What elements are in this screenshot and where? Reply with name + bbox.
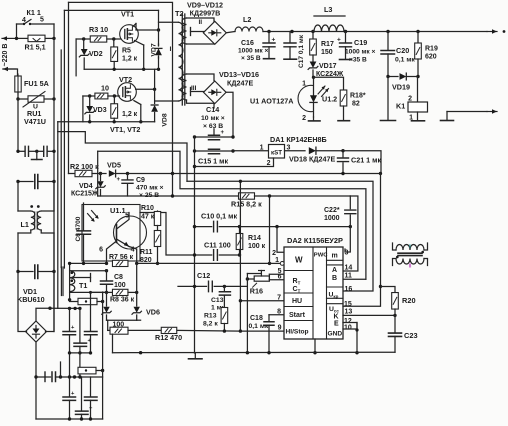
svg-text:1,2 к: 1,2 к bbox=[122, 111, 138, 118]
svg-text:R17: R17 bbox=[321, 41, 334, 48]
wire: VT2 cell left drop bbox=[82, 96, 84, 122]
svg-text:FU1 5A: FU1 5A bbox=[24, 79, 49, 88]
wire: right mains rail x=54 down bbox=[53, 38, 55, 331]
svg-text:R11: R11 bbox=[140, 249, 153, 256]
svg-text:V471U: V471U bbox=[24, 117, 46, 126]
wire: VT1/VT2 mid rail y=69.5 bbox=[84, 68, 160, 71]
resistor R7 56k bbox=[109, 254, 134, 267]
svg-text:DA1 КР142ЕН8Б: DA1 КР142ЕН8Б bbox=[270, 135, 327, 144]
wire: T1 top lead y=270.7 bbox=[70, 269, 109, 272]
svg-text:1: 1 bbox=[260, 145, 264, 152]
wire: x=240.4 vertical pin9/pin7 net bbox=[239, 180, 242, 333]
resistor R20 bbox=[392, 293, 416, 316]
ground: C20 bbox=[381, 120, 396, 122]
svg-text:HI/Stop: HI/Stop bbox=[286, 329, 309, 336]
wire: winding II top to bridge bbox=[187, 18, 215, 22]
switch K1.1 bbox=[17, 8, 55, 25]
capacitor C2: X-cap lower bbox=[16, 265, 55, 279]
resistor R19 620 bbox=[415, 32, 438, 77]
svg-text:1000 мк ×: 1000 мк × bbox=[238, 48, 269, 55]
svg-text:C16: C16 bbox=[241, 40, 254, 47]
relay coil K1 bbox=[396, 77, 428, 122]
wire: DA2 pin12 and pin10 to rail bbox=[343, 323, 359, 355]
capacitor C17 0,1uF bbox=[284, 32, 305, 69]
ground: C17 bbox=[284, 58, 297, 60]
svg-text:R20: R20 bbox=[402, 296, 416, 305]
wire: left rail from input2 down to fuse bbox=[3, 69, 18, 76]
svg-text:E: E bbox=[334, 320, 339, 327]
svg-text:1000 мк ×: 1000 мк × bbox=[345, 49, 376, 56]
svg-text:A: A bbox=[332, 267, 337, 274]
resistor R13 8,2k bbox=[203, 295, 228, 333]
wire: VD1 plus output up to node bbox=[36, 307, 52, 322]
wire: C20 down to ground bbox=[387, 77, 389, 121]
wire: row y=352.9 bbox=[68, 351, 92, 354]
node: AC input terminal 2 bbox=[3, 67, 16, 71]
varistor RU1 V471U bbox=[18, 92, 56, 127]
wire: bridge III output right to x=233 bbox=[226, 92, 233, 137]
wire: bus x=63.8 down to T1 bbox=[63, 10, 65, 268]
wire: R9 node down to rail bbox=[112, 334, 114, 353]
wire: fuse to varistor node bbox=[16, 92, 19, 101]
capacitor C23 bbox=[389, 315, 418, 352]
capacitor C5a bottom center bbox=[76, 377, 94, 419]
wire: spine x=194.5 down bbox=[193, 137, 196, 353]
wire: bridge III bottom down to C14 bbox=[213, 104, 215, 136]
svg-text:КД2997В: КД2997В bbox=[190, 9, 221, 18]
svg-text:47 к: 47 к bbox=[141, 214, 155, 221]
resistor R8 36k bbox=[107, 289, 139, 303]
svg-text:КД247Е: КД247Е bbox=[227, 79, 253, 88]
svg-text:R15 8,2 к: R15 8,2 к bbox=[231, 200, 262, 209]
wire: pin16 net y=181.3 bbox=[187, 181, 373, 291]
svg-text:C17 0,1 мк: C17 0,1 мк bbox=[298, 34, 305, 68]
pin number labels DA2 right bbox=[344, 250, 352, 332]
wire: VD1 minus output down to bottom rail bbox=[35, 342, 37, 419]
wire: DA2 pin15 Ucc from node x=380.5 bbox=[343, 174, 382, 307]
svg-text:I: I bbox=[170, 46, 172, 53]
capacitor C7 (box) bbox=[70, 298, 105, 304]
svg-text:0,1 мк: 0,1 мк bbox=[395, 57, 415, 64]
wire: T2 primary top lead bbox=[159, 21, 179, 23]
wire: verticals row353 to row377 bbox=[70, 353, 80, 377]
svg-text:6: 6 bbox=[99, 247, 103, 254]
capacitor C?: Y-cap left bbox=[16, 146, 38, 156]
capacitor C20 0,1uF bbox=[381, 32, 415, 77]
svg-text:+: + bbox=[221, 130, 225, 136]
svg-text:16: 16 bbox=[345, 286, 353, 293]
svg-text:C8: C8 bbox=[114, 274, 123, 281]
svg-text:L1: L1 bbox=[21, 220, 29, 229]
svg-text:C6 4700: C6 4700 bbox=[75, 216, 82, 241]
svg-text:× 35 В: × 35 В bbox=[241, 55, 261, 62]
wire: bottom rail y=419 bbox=[36, 371, 103, 421]
diode VD18 KD247E bbox=[289, 147, 343, 163]
svg-text:C22*: C22* bbox=[324, 207, 340, 214]
resistor R2 100k bbox=[70, 162, 102, 177]
svg-text:R1 5,1: R1 5,1 bbox=[25, 43, 46, 52]
wire: net y=226.6 from spine to corner x=350.3 bbox=[193, 225, 352, 228]
wire: bus x=57.8 down to + wire bbox=[57, 122, 59, 309]
svg-text:кST: кST bbox=[271, 150, 282, 157]
node: output arrow common bbox=[447, 109, 497, 113]
wire: VT2 source down bbox=[134, 101, 143, 124]
label U1 AOT127A bbox=[250, 97, 293, 106]
svg-text:× 63 В: × 63 В bbox=[203, 123, 223, 130]
svg-text:U1.1: U1.1 bbox=[110, 206, 126, 215]
svg-text:VD5: VD5 bbox=[107, 161, 121, 170]
svg-text:10: 10 bbox=[344, 325, 352, 332]
wire: pin11 net to chip bbox=[343, 278, 366, 280]
svg-text:6: 6 bbox=[278, 274, 282, 281]
resistor R10 47k bbox=[140, 205, 161, 226]
svg-text:C19: C19 bbox=[354, 38, 367, 47]
svg-text:II: II bbox=[199, 19, 203, 26]
svg-text:VD17: VD17 bbox=[319, 63, 337, 70]
IC DA1 KR142EN8B bbox=[260, 135, 327, 167]
wire: winding III bottom to bridge bbox=[187, 100, 215, 103]
trimmer R16 bbox=[246, 271, 270, 296]
svg-text:KBU610: KBU610 bbox=[17, 295, 45, 304]
node: AC input terminal 1 bbox=[2, 36, 16, 40]
svg-text:VD19: VD19 bbox=[392, 83, 410, 92]
diode VD7 bbox=[151, 10, 164, 69]
capacitor C?: Y-cap right bbox=[37, 146, 56, 156]
svg-text:VD4: VD4 bbox=[79, 183, 93, 190]
capacitor C3 left bbox=[63, 308, 76, 353]
wire: C12 net y=286.4 bbox=[178, 285, 247, 288]
svg-text:13: 13 bbox=[345, 309, 353, 316]
transformer T2 bbox=[170, 9, 203, 105]
wire: VD18 node to right corner down to y=173.5 bbox=[341, 149, 381, 174]
svg-text:C11 100: C11 100 bbox=[204, 241, 231, 250]
wire: C14 row y=137 bbox=[193, 135, 235, 138]
capacitor C4a bottom right bbox=[85, 377, 98, 419]
wire: VT1 drain to node x=158.5 bbox=[133, 24, 160, 32]
wire: VT2 drain to right bbox=[136, 88, 157, 91]
capacitor C9 470uF 25V bbox=[116, 174, 163, 200]
svg-text:K: K bbox=[334, 313, 339, 320]
capacitor C5 center bbox=[74, 308, 92, 353]
svg-text:150: 150 bbox=[321, 49, 333, 56]
svg-text:3: 3 bbox=[345, 250, 349, 257]
svg-text:C9: C9 bbox=[136, 177, 145, 184]
wire: secondary common rail y=352.7 bbox=[113, 351, 396, 354]
node: winding II center tap T-bar bbox=[191, 28, 205, 36]
net label ~220 V bbox=[2, 44, 9, 67]
transformer T1 bbox=[61, 262, 90, 302]
svg-text:U1 АОТ127А: U1 АОТ127А bbox=[250, 97, 293, 106]
svg-text:C18: C18 bbox=[250, 315, 263, 322]
wire: winding II bottom to bridge bbox=[187, 43, 215, 45]
diode VD5 bbox=[101, 161, 130, 177]
svg-text:VD7: VD7 bbox=[151, 43, 158, 56]
capacitor C2a electrolytic row 377 bbox=[34, 372, 102, 382]
resistor R12 470 bbox=[155, 327, 240, 342]
svg-text:C21 1 мк: C21 1 мк bbox=[351, 156, 381, 165]
svg-text:2: 2 bbox=[272, 250, 276, 257]
wire: VT1 gate cell left drop bbox=[75, 39, 77, 76]
capacitor C15 1uF bbox=[198, 149, 228, 165]
svg-text:1000: 1000 bbox=[324, 215, 340, 222]
svg-text:К1 1: К1 1 bbox=[27, 8, 41, 17]
svg-text:C14: C14 bbox=[206, 105, 219, 114]
svg-text:C13: C13 bbox=[211, 297, 224, 304]
ground: C16 bbox=[264, 58, 275, 60]
svg-text:m: m bbox=[332, 253, 338, 260]
wire: pin3 net from y=226.6 down bbox=[345, 227, 350, 252]
ground: common rail bbox=[189, 353, 203, 359]
wire: R16 left down to rail bbox=[246, 279, 248, 353]
svg-text:620: 620 bbox=[425, 54, 437, 61]
inductor L2 bbox=[226, 15, 269, 33]
diode VD8 bbox=[151, 69, 168, 126]
wire: DA2 pin13 to R20 node bbox=[343, 314, 397, 317]
svg-text:470 мк ×: 470 мк × bbox=[136, 185, 164, 192]
svg-text:C23: C23 bbox=[404, 331, 418, 340]
svg-text:VD2: VD2 bbox=[89, 51, 103, 58]
wire: T1 bottom row to x=102.6 bbox=[89, 291, 107, 294]
diode bridge VD9-VD12 KD2997V bbox=[187, 1, 226, 45]
fuse FU1 5A bbox=[15, 74, 49, 94]
svg-text:R14: R14 bbox=[248, 235, 261, 242]
svg-text:PWC: PWC bbox=[314, 253, 328, 259]
wire: bottom bracket y=320.2 bbox=[107, 320, 137, 330]
svg-text:+: + bbox=[272, 37, 276, 44]
transistor VT1 (MOSFET) bbox=[120, 10, 139, 44]
zener VD3 bbox=[85, 96, 107, 122]
svg-text:U1.2: U1.2 bbox=[322, 95, 337, 104]
resistor R15 8,2k bbox=[194, 193, 350, 209]
capacitor C18 0,1uF bbox=[249, 315, 275, 353]
wire: VT1 source down to mid rail bbox=[135, 41, 146, 72]
svg-text:W: W bbox=[295, 256, 303, 265]
ground: output common bbox=[441, 112, 454, 121]
ground: C19 bbox=[340, 59, 352, 61]
zener VD? left of VD6 bbox=[102, 292, 111, 320]
wire: DA1 pin2 down to y=166.5 bbox=[195, 158, 274, 167]
svg-text:C15 1 мк: C15 1 мк bbox=[198, 157, 228, 166]
wire: x=269.5 from R15 net down to pin1 net bbox=[269, 196, 271, 263]
wire: left rail fuse node down to Y-caps bbox=[17, 99, 19, 151]
wire: R10 top bracket to C11 node bbox=[161, 213, 195, 256]
wire: top bus y=2.4 to x=172.5 down to node 173.5 bbox=[69, 2, 173, 173]
inductor L1 (common-mode choke) bbox=[18, 182, 54, 272]
node: winding III center tap T-bar bbox=[191, 88, 204, 96]
svg-text:VT1: VT1 bbox=[121, 10, 134, 19]
wire: DA2 bottom center to rail bbox=[313, 339, 316, 354]
wire: DA2 pin9 net y=331.1 bbox=[240, 330, 284, 332]
svg-text:100: 100 bbox=[114, 282, 126, 289]
svg-text:VD8: VD8 bbox=[162, 113, 169, 126]
inductor L3 bbox=[314, 5, 345, 32]
ground: Y-cap midpoint bbox=[32, 151, 43, 159]
svg-text:10 мк ×: 10 мк × bbox=[201, 115, 225, 122]
wire: DA1 input from x=233 bbox=[233, 150, 269, 152]
capacitor C19 1000uF 35V bbox=[337, 32, 376, 64]
svg-text:1,2 к: 1,2 к bbox=[122, 56, 138, 63]
svg-text:VD3: VD3 bbox=[93, 107, 107, 114]
svg-text:B: B bbox=[332, 275, 337, 282]
capacitor C6 4700 bbox=[75, 203, 91, 263]
wire: y=173.5 continuation to node x=380 bbox=[128, 172, 383, 175]
capacitor C10 0,1uF bbox=[201, 212, 237, 232]
svg-text:82: 82 bbox=[352, 101, 360, 108]
svg-text:100 к: 100 к bbox=[248, 243, 266, 250]
svg-text:R2 100 к: R2 100 к bbox=[70, 162, 99, 171]
wire: +12V rail y=31.5 bbox=[267, 30, 487, 33]
capacitor C16 1000uF 35V bbox=[238, 32, 276, 63]
optocoupler U1.2 LED bbox=[298, 76, 337, 122]
svg-text:+: + bbox=[337, 37, 341, 44]
zener VD4 KS215Zh bbox=[71, 174, 105, 198]
wire: switch to R1 row bbox=[17, 24, 55, 38]
wire: stub x=60.5 bbox=[60, 362, 62, 377]
svg-text:+: + bbox=[116, 177, 120, 183]
capacitor C8 100 bbox=[101, 271, 126, 294]
wire: R15 net y=196.5 from x=172.5 bbox=[171, 174, 174, 198]
capacitor C11 100 bbox=[193, 241, 241, 261]
svg-text:R13: R13 bbox=[204, 313, 217, 320]
svg-text:VD6: VD6 bbox=[146, 308, 160, 317]
wire: top bus y=10.4 to x=158.5 bbox=[64, 9, 158, 11]
wire: VT2 source rail y=121.7 bbox=[58, 120, 155, 123]
optocoupler U1.1 bbox=[82, 205, 147, 264]
svg-text:10: 10 bbox=[101, 84, 109, 93]
svg-text:11: 11 bbox=[345, 273, 353, 280]
diode VD6 bbox=[132, 292, 160, 320]
resistor R4 10 bbox=[83, 84, 120, 99]
transformer T3 bbox=[393, 243, 428, 270]
svg-text:DA2 К1156ЕУ2Р: DA2 К1156ЕУ2Р bbox=[287, 236, 343, 245]
resistor R18* 82 bbox=[314, 77, 366, 120]
wire: DA2 pin8 and C18 bbox=[269, 315, 284, 322]
resistor R6 1,2k bbox=[111, 96, 138, 122]
svg-text:L2: L2 bbox=[243, 15, 251, 24]
svg-text:8,2 к: 8,2 к bbox=[203, 321, 218, 328]
wire: winding III top to bridge bbox=[187, 74, 215, 81]
svg-text:R8 36 к: R8 36 к bbox=[110, 297, 135, 304]
svg-text:C10 0,1 мк: C10 0,1 мк bbox=[201, 212, 237, 221]
ground: R18 bbox=[338, 120, 350, 122]
transistor VT2 (MOSFET) bbox=[118, 75, 137, 101]
svg-text:9: 9 bbox=[278, 325, 282, 332]
resistor R17 150 bbox=[310, 32, 334, 62]
svg-text:C20: C20 bbox=[396, 46, 409, 55]
wire: C15 row y=151 bbox=[193, 149, 235, 152]
node: DA2 pin1 inverting circle bbox=[271, 262, 284, 266]
wire: vertical x=102.6 down bbox=[102, 292, 104, 370]
wire: +310V node wire y=308.4 bbox=[50, 307, 82, 310]
svg-text:7: 7 bbox=[277, 294, 281, 301]
svg-text:14: 14 bbox=[345, 265, 353, 272]
svg-text:VD18 КД247Е: VD18 КД247Е bbox=[289, 155, 335, 164]
wire: net y=151.3 to corner x=180 down to y=188.8 (pin 11 net) bbox=[98, 151, 366, 279]
capacitor C12 bbox=[197, 271, 212, 292]
zener VD2 bbox=[79, 39, 102, 69]
IC DA2 K1156EU2R bbox=[284, 236, 343, 339]
diode bridge VD13-VD16 KD247E bbox=[204, 70, 259, 104]
wire: Ucc node branch to R20 bbox=[381, 287, 396, 293]
wire: DA2 pin7 from x=240.4 bbox=[239, 299, 284, 302]
svg-text:VT1, VT2: VT1, VT2 bbox=[110, 125, 140, 134]
wire: net y=195.3 (Uref) bbox=[98, 195, 194, 197]
wire: bus x=69.2 from top to R2 row bbox=[68, 2, 70, 173]
wire: rail left stub from R12 area bbox=[137, 319, 141, 321]
node: output arrow +12V bbox=[487, 29, 505, 33]
svg-text:L3: L3 bbox=[324, 5, 332, 14]
wire: corner x=97.7 from y=151.3 bbox=[97, 151, 99, 196]
resistor R5 1,2k bbox=[111, 39, 138, 69]
svg-text:5: 5 bbox=[40, 17, 44, 24]
svg-text:8: 8 bbox=[277, 308, 281, 315]
svg-text:R12 470: R12 470 bbox=[155, 333, 182, 342]
svg-text:R10: R10 bbox=[141, 205, 154, 212]
svg-text:HU: HU bbox=[292, 298, 302, 305]
svg-text:R5: R5 bbox=[122, 48, 131, 55]
resistor R1 5,1 bbox=[15, 35, 56, 51]
svg-text:КС215Ж: КС215Ж bbox=[71, 191, 99, 198]
wire: x=136.7 from pin net down through VD6 bbox=[136, 263, 138, 292]
svg-text:2: 2 bbox=[302, 115, 306, 122]
diode bridge VD1 KBU610 bbox=[17, 272, 54, 343]
svg-text:C12: C12 bbox=[197, 271, 210, 280]
zener VD17 KS224Zh bbox=[308, 62, 344, 79]
capacitor C14 10uF 63V bbox=[201, 105, 225, 140]
svg-text:~220 В: ~220 В bbox=[2, 44, 9, 67]
wire: net y=263.4 to DA2 pin 1 bbox=[70, 262, 272, 265]
svg-text:15: 15 bbox=[344, 301, 352, 308]
svg-text:R18*: R18* bbox=[350, 93, 366, 100]
wire: DA2 pin2 drop x=277 bbox=[277, 227, 284, 253]
wire: R16 to DA2 pins 5 and 6 bbox=[269, 274, 284, 279]
svg-text:Start: Start bbox=[289, 312, 306, 319]
svg-text:R16: R16 bbox=[250, 287, 263, 296]
svg-text:R19: R19 bbox=[425, 46, 438, 53]
resistor R11 820 bbox=[140, 226, 161, 266]
ground: K1 bbox=[412, 120, 425, 122]
capacitor C3a bottom left bbox=[63, 377, 76, 419]
wire: T1 bottom lead y=292.4 bbox=[70, 291, 107, 293]
capacitor C21 1uF bbox=[338, 151, 382, 174]
svg-text:K1: K1 bbox=[396, 102, 405, 111]
diode VD19 bbox=[386, 73, 419, 91]
svg-text:GND: GND bbox=[328, 331, 343, 338]
resistor R3 10 bbox=[76, 25, 121, 42]
svg-text:R3 10: R3 10 bbox=[89, 25, 108, 34]
capacitor C22* 1000 bbox=[324, 196, 356, 227]
pin number labels DA2 left bbox=[272, 250, 282, 332]
wire: main net y=173.5 with R2/VD5/C9 bbox=[69, 173, 76, 175]
ground: U1.2 bbox=[309, 117, 321, 121]
capacitor C4 right bbox=[85, 292, 98, 353]
wire: box bottom jog y=131.6 bbox=[58, 132, 187, 182]
component box row 370 bbox=[78, 367, 104, 374]
resistor R14 100k bbox=[236, 227, 265, 255]
wire: T2 primary bottom lead bbox=[155, 100, 179, 102]
wire: DA1 pin3 out bbox=[285, 150, 306, 152]
svg-text:0,1 мк: 0,1 мк bbox=[249, 323, 269, 330]
svg-text:T1: T1 bbox=[79, 281, 87, 290]
label VT1, VT2 bbox=[110, 125, 140, 134]
resistor R9 100 bbox=[108, 321, 162, 334]
capacitor C1: X-cap upper bbox=[16, 175, 55, 189]
wire: bus x=61 down bbox=[60, 50, 62, 268]
wire: pin14 net corner x=357.9 bbox=[343, 196, 358, 271]
capacitor C13 1uF bbox=[211, 286, 230, 311]
